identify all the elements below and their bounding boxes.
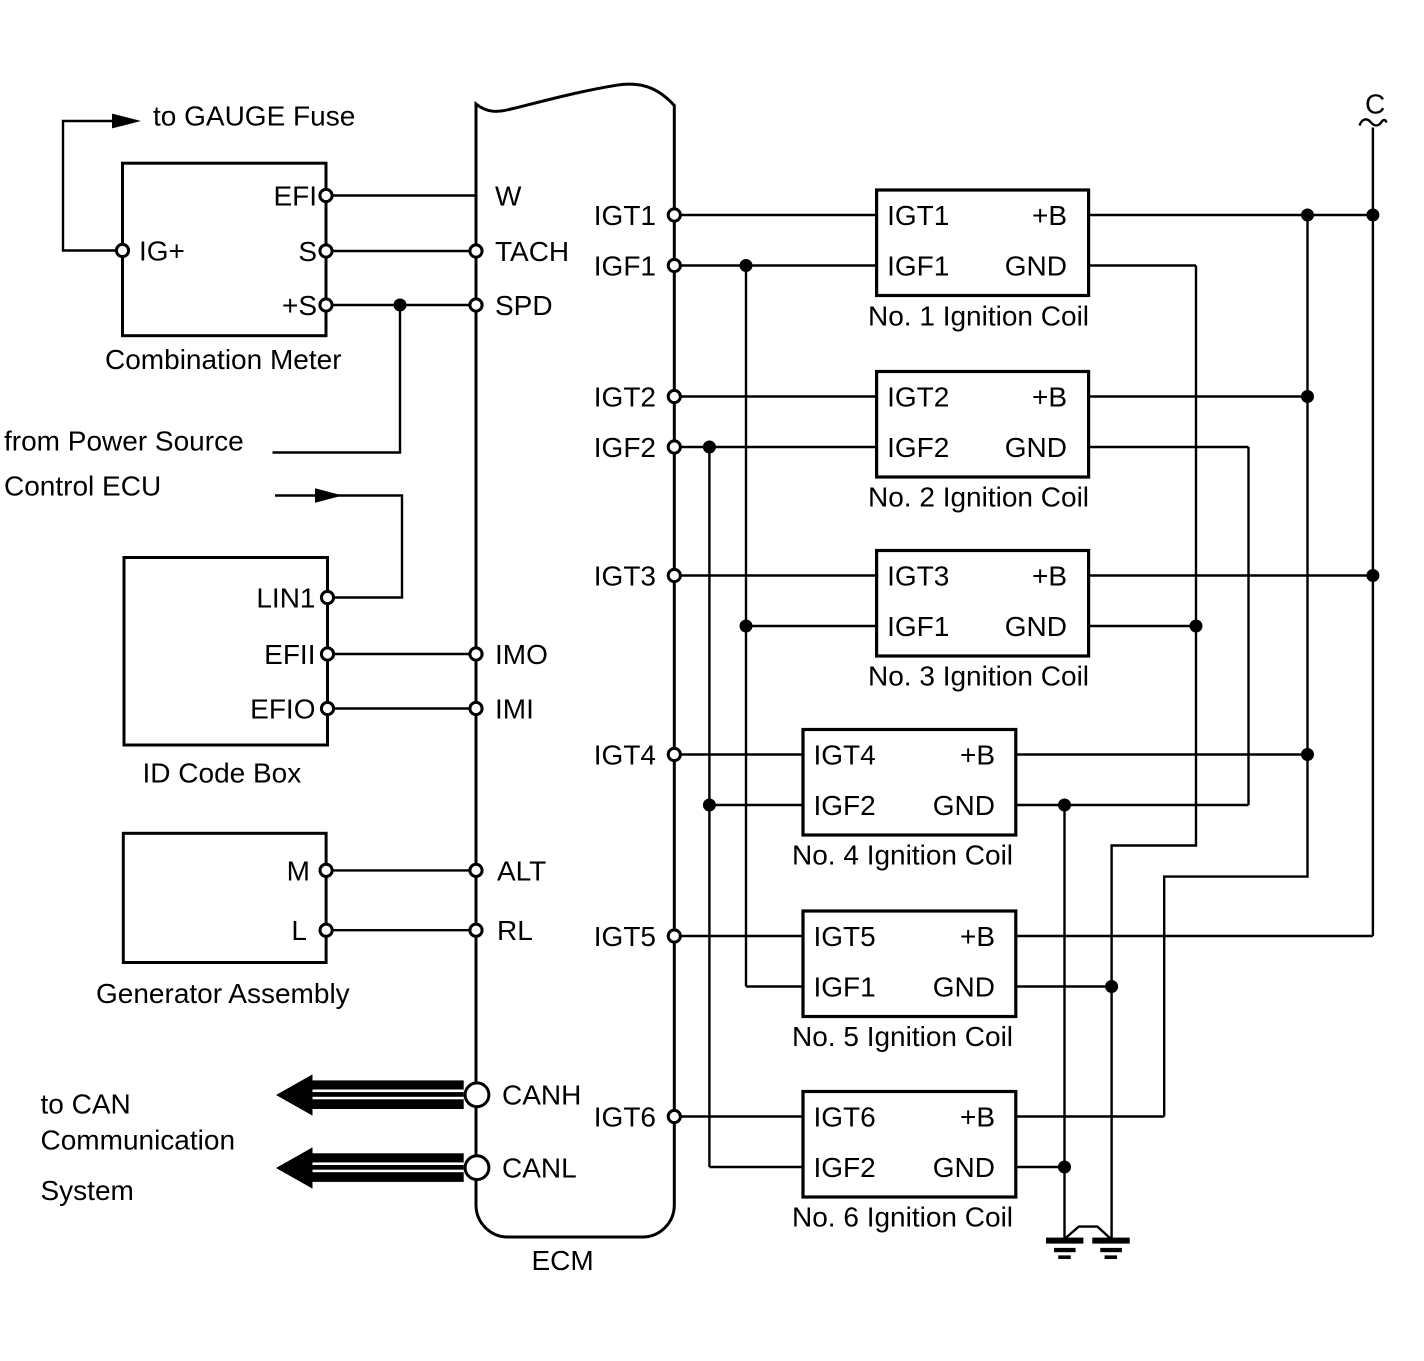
ignition coil U1 box: [877, 190, 1089, 296]
pin circle IGF1: [668, 259, 680, 271]
svg-text:IGF2: IGF2: [814, 1152, 876, 1183]
Generator Assembly box: [123, 833, 326, 962]
svg-text:IGF1: IGF1: [594, 251, 656, 282]
svg-text:TACH: TACH: [495, 236, 569, 267]
svg-text:to CAN: to CAN: [41, 1088, 131, 1119]
junction IGF2 at bus: [703, 441, 716, 454]
ID Code Box: [124, 558, 328, 746]
wire L-RL: [333, 929, 469, 931]
wire IGF2 ECM to coil 2: [681, 446, 876, 448]
wire IGT1 ECM to coil 1: [681, 214, 876, 216]
wire +B bus to coil6: [1164, 215, 1307, 1117]
wire IGT5 ECM to coil 5: [681, 935, 803, 937]
svg-text:+B: +B: [1032, 382, 1067, 413]
pin circle IGT6: [668, 1110, 680, 1122]
svg-text:IGF2: IGF2: [594, 432, 656, 463]
svg-text:IGF1: IGF1: [814, 972, 876, 1003]
wire hump between grounds: [1065, 1227, 1112, 1239]
svg-text:RL: RL: [497, 915, 533, 946]
ignition coil U4 box: [803, 730, 1016, 836]
wire coil5 +B: [1016, 935, 1373, 937]
wire M-ALT: [333, 869, 469, 871]
svg-text:IGF1: IGF1: [887, 251, 949, 282]
arrowhead to GAUGE fuse: [112, 114, 141, 129]
svg-text:System: System: [41, 1175, 134, 1206]
wire from Power Source to node on SPD wire: [273, 305, 401, 453]
svg-text:+B: +B: [960, 740, 995, 771]
pin circle +S: [320, 299, 332, 311]
svg-text:IGT6: IGT6: [814, 1102, 876, 1133]
svg-text:IGT3: IGT3: [887, 561, 949, 592]
pin circle S: [320, 245, 332, 257]
svg-text:GND: GND: [1005, 611, 1067, 642]
pin circle TACH: [470, 245, 482, 257]
junction coil4 GND: [1058, 799, 1071, 812]
ignition coil U6 box: [803, 1092, 1016, 1198]
ignition coil U3 box: [877, 551, 1089, 657]
svg-text:ECM: ECM: [532, 1245, 594, 1276]
wire IGT6 ECM to coil 6: [681, 1115, 803, 1117]
svg-text:+B: +B: [960, 921, 995, 952]
svg-text:GND: GND: [933, 1152, 995, 1183]
junction IGF1 bus coil3: [740, 620, 753, 633]
junction GND bus coil5: [1105, 980, 1118, 993]
junction IGF2 bus coil4: [703, 799, 716, 812]
svg-text:IGT2: IGT2: [594, 382, 656, 413]
svg-text:EFIO: EFIO: [250, 694, 315, 725]
pin circle L: [320, 924, 332, 936]
svg-text:to GAUGE Fuse: to GAUGE Fuse: [153, 101, 355, 132]
wire IGF2 bus to coil 4: [709, 804, 803, 806]
svg-text:IGT4: IGT4: [814, 740, 876, 771]
pin circle LIN1: [321, 591, 333, 603]
wire coil4 GND: [1016, 804, 1249, 806]
svg-text:C: C: [1365, 88, 1385, 119]
wire coil2 +B: [1089, 395, 1308, 397]
wire S-TACH: [333, 250, 469, 252]
ignition coil U2 box: [877, 372, 1089, 478]
arrowhead Control ECU wire: [315, 488, 343, 502]
wire IGF1 bus to coil 3: [746, 625, 877, 627]
pin circle CANH: [465, 1083, 489, 1107]
svg-text:IMO: IMO: [495, 639, 548, 670]
pin circle IGT3: [668, 569, 680, 581]
svg-text:IMI: IMI: [495, 694, 534, 725]
ground G1: [1046, 1238, 1083, 1259]
svg-text:S: S: [298, 236, 317, 267]
svg-text:GND: GND: [933, 972, 995, 1003]
pin circle IGT2: [668, 390, 680, 402]
pin circle SPD: [470, 299, 482, 311]
wire coil6 GND: [1016, 1166, 1065, 1168]
wire IG+ to GAUGE fuse: [63, 121, 135, 251]
ground G2: [1092, 1238, 1129, 1259]
CANH arrow to CAN system: [276, 1074, 464, 1115]
Combination Meter box: [123, 163, 327, 336]
svg-text:IGT6: IGT6: [594, 1102, 656, 1133]
svg-text:from Power Source: from Power Source: [4, 425, 244, 456]
junction +B bus1 row2: [1301, 390, 1314, 403]
wire IGT2 ECM to coil 2: [681, 395, 876, 397]
svg-text:No. 4 Ignition Coil: No. 4 Ignition Coil: [792, 840, 1013, 871]
svg-text:IGF1: IGF1: [887, 611, 949, 642]
svg-text:Generator Assembly: Generator Assembly: [96, 978, 350, 1009]
ignition coil U5 box: [803, 911, 1016, 1017]
pin circle EFIO: [321, 702, 333, 714]
junction +B bus1 row4: [1301, 748, 1314, 761]
pin circle IMO: [470, 648, 482, 660]
wire EFI-W: [333, 194, 476, 196]
svg-text:SPD: SPD: [495, 290, 553, 321]
wire GND bus coil2 to coil4: [1247, 447, 1249, 805]
svg-text:CANH: CANH: [502, 1080, 581, 1111]
svg-text:No. 2 Ignition Coil: No. 2 Ignition Coil: [868, 482, 1089, 513]
pin circle IGT1: [668, 209, 680, 221]
svg-text:M: M: [287, 855, 310, 886]
wire IGT3 ECM to coil 3: [681, 574, 876, 576]
pin circle IGT4: [668, 748, 680, 760]
wire coil5 GND: [1016, 985, 1112, 987]
wire IGF1 ECM to coil 1: [681, 264, 876, 266]
svg-text:IGT5: IGT5: [594, 921, 656, 952]
junction C bus row1: [1366, 209, 1379, 222]
svg-text:IGT4: IGT4: [594, 740, 656, 771]
svg-text:IGF2: IGF2: [814, 790, 876, 821]
pin circle RL: [470, 924, 482, 936]
svg-text:No. 6 Ignition Coil: No. 6 Ignition Coil: [792, 1202, 1013, 1233]
wire IGF2 vertical bus: [708, 447, 710, 1167]
svg-text:Control ECU: Control ECU: [4, 470, 161, 501]
svg-text:GND: GND: [1005, 251, 1067, 282]
wire EFIO-IMI: [335, 707, 470, 709]
wire GND bus coil1-coil3-coil5 to ground: [1112, 266, 1196, 1241]
svg-text:GND: GND: [933, 790, 995, 821]
svg-text:CANL: CANL: [502, 1153, 577, 1184]
wire IGF1 vertical bus: [745, 266, 747, 987]
svg-text:No. 1 Ignition Coil: No. 1 Ignition Coil: [868, 301, 1089, 332]
CANL arrow to CAN system: [276, 1147, 464, 1188]
svg-text:EFI: EFI: [273, 181, 317, 212]
svg-text:IGT1: IGT1: [887, 200, 949, 231]
wire coil4 +B: [1016, 753, 1308, 755]
svg-text:L: L: [291, 915, 307, 946]
pin circle IGT5: [668, 930, 680, 942]
pin circle ALT: [470, 864, 482, 876]
junction coil6 GND: [1058, 1161, 1071, 1174]
pin circle EFII: [321, 648, 333, 660]
svg-text:GND: GND: [1005, 432, 1067, 463]
wire +S-SPD: [333, 304, 469, 306]
wire coil4/coil6 GND to ground: [1063, 805, 1065, 1241]
pin circle EFI: [320, 189, 332, 201]
pin circle IGF2: [668, 441, 680, 453]
wire coil3 GND: [1089, 625, 1196, 627]
svg-text:No. 5 Ignition Coil: No. 5 Ignition Coil: [792, 1021, 1013, 1052]
wire IGF2 bus to coil 6: [709, 1166, 803, 1168]
svg-text:ID Code Box: ID Code Box: [143, 758, 302, 789]
junction GND bus coil3: [1190, 620, 1203, 633]
wire EFII-IMO: [335, 653, 470, 655]
svg-text:LIN1: LIN1: [256, 583, 315, 614]
pin circle CANL: [465, 1156, 489, 1180]
svg-text:Combination Meter: Combination Meter: [105, 344, 342, 375]
pin circle M: [320, 864, 332, 876]
wire +B bus from connector C: [1372, 128, 1374, 937]
svg-text:IGT2: IGT2: [887, 382, 949, 413]
svg-text:+B: +B: [960, 1102, 995, 1133]
junction node on SPD wire: [394, 299, 407, 312]
node C break squiggle: [1360, 119, 1387, 125]
svg-text:+B: +B: [1032, 561, 1067, 592]
wire coil6 +B: [1016, 1115, 1164, 1117]
svg-text:IGT1: IGT1: [594, 200, 656, 231]
wire coil1 GND: [1089, 264, 1196, 266]
wire coil2 GND: [1089, 446, 1249, 448]
svg-text:No. 3 Ignition Coil: No. 3 Ignition Coil: [868, 661, 1089, 692]
svg-text:ALT: ALT: [497, 855, 546, 886]
wire IGT4 ECM to coil 4: [681, 753, 803, 755]
wire coil1 +B to node C bus: [1089, 214, 1373, 216]
wire Control ECU to LIN1: [275, 496, 402, 598]
wire IGF1 bus to coil 5: [746, 985, 803, 987]
junction IGF1 at bus: [740, 259, 753, 272]
pin circle IMI: [470, 702, 482, 714]
pin circle IG+: [116, 244, 128, 256]
svg-text:+S: +S: [282, 290, 317, 321]
svg-text:Communication: Communication: [41, 1125, 236, 1156]
junction C bus row3: [1366, 569, 1379, 582]
svg-text:+B: +B: [1032, 200, 1067, 231]
wire coil3 +B: [1089, 574, 1373, 576]
svg-text:IGT3: IGT3: [594, 561, 656, 592]
svg-text:W: W: [495, 180, 522, 211]
svg-text:IGT5: IGT5: [814, 921, 876, 952]
svg-text:IG+: IG+: [139, 236, 185, 267]
svg-text:IGF2: IGF2: [887, 432, 949, 463]
ECM outline: [476, 84, 674, 1237]
svg-text:EFII: EFII: [264, 639, 315, 670]
junction +B bus1 row1: [1301, 209, 1314, 222]
